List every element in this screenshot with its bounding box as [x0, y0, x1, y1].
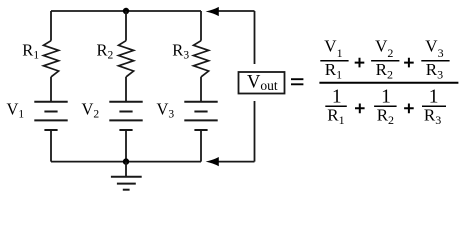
wire V2 to bottom bus [125, 130, 127, 162]
formula denominator fraction 1/R1 [325, 87, 347, 128]
wire V3 to bottom bus [200, 130, 202, 162]
wire V1 to bottom bus [50, 130, 52, 162]
formula plus denominator 2 [404, 104, 414, 114]
wire R1 to V1 [50, 77, 52, 102]
svg-text:R3: R3 [172, 40, 189, 61]
battery V3 [184, 102, 217, 130]
wire top bus [51, 10, 201, 12]
wire R3 to V3 [200, 77, 202, 102]
wire R2 to V2 [125, 77, 127, 102]
formula main fraction bar [319, 82, 458, 84]
formula denominator fraction 1/R3 [422, 87, 446, 128]
box Vout [239, 72, 285, 94]
formula numerator fraction V3/R3 [421, 36, 449, 81]
svg-text:R3: R3 [424, 105, 441, 127]
wire Vout bottom feedback [218, 101, 255, 162]
wire Vout top feedback [218, 11, 255, 64]
arrowhead bottom (points left at bottom bus) [206, 157, 219, 166]
resistor R1 [44, 41, 59, 77]
svg-text:R2: R2 [377, 105, 394, 127]
svg-text:R2: R2 [97, 40, 114, 61]
svg-text:V3: V3 [157, 100, 175, 121]
formula numerator fraction V2/R2 [371, 36, 399, 81]
svg-text:V2: V2 [375, 36, 393, 60]
svg-text:R3: R3 [426, 60, 443, 81]
formula denominator fraction 1/R2 [374, 87, 397, 128]
arrowhead top (points left at top bus) [206, 7, 219, 16]
svg-text:V1: V1 [324, 36, 342, 60]
formula plus numerator 2 [404, 58, 414, 68]
formula plus denominator 1 [355, 104, 365, 114]
wire bottom bus [51, 161, 201, 163]
battery V1 [34, 102, 67, 130]
svg-text:R2: R2 [376, 60, 393, 81]
formula plus numerator 1 [355, 58, 365, 68]
node top junction [123, 8, 129, 14]
svg-text:V1: V1 [7, 100, 25, 121]
wire branch3 top [200, 11, 202, 41]
svg-text:R1: R1 [327, 105, 344, 127]
svg-text:Vout: Vout [247, 72, 278, 93]
equation equals sign [291, 79, 303, 84]
formula numerator fraction V1/R1 [320, 36, 348, 81]
resistor R3 [194, 41, 209, 77]
wire branch2 top [125, 11, 127, 41]
svg-text:V2: V2 [82, 100, 100, 121]
svg-text:R1: R1 [325, 60, 342, 81]
battery V2 [109, 102, 142, 130]
svg-text:R1: R1 [22, 40, 39, 61]
svg-text:V3: V3 [425, 36, 443, 60]
wire branch1 top [50, 11, 52, 41]
resistor R2 [119, 41, 134, 77]
ground [111, 162, 142, 190]
node bottom junction [123, 158, 129, 164]
